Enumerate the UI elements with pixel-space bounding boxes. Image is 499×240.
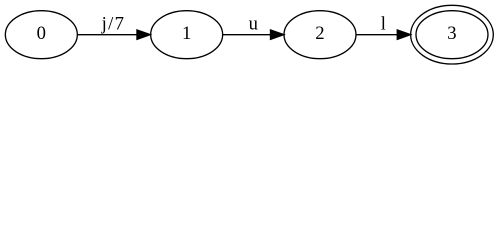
label j/7 bbox=[101, 14, 124, 35]
state 0 bbox=[5, 11, 77, 59]
arrowhead 0->1 bbox=[137, 30, 150, 39]
accepting state 3 (double ellipse) bbox=[411, 5, 494, 64]
wire edge 0->1 bbox=[78, 34, 137, 36]
label u bbox=[249, 14, 259, 35]
wire edge 1->2 bbox=[223, 34, 271, 36]
wire edge 2->3 bbox=[356, 34, 397, 36]
label l bbox=[381, 14, 386, 35]
state 1 bbox=[151, 11, 223, 59]
arrowhead 2->3 bbox=[397, 30, 410, 39]
arrowhead 1->2 bbox=[270, 30, 283, 39]
svg-text:l: l bbox=[381, 14, 386, 35]
svg-text:j/7: j/7 bbox=[101, 14, 124, 35]
svg-text:2: 2 bbox=[315, 23, 324, 44]
svg-text:u: u bbox=[249, 14, 259, 35]
svg-text:0: 0 bbox=[37, 23, 46, 44]
svg-text:1: 1 bbox=[182, 23, 191, 44]
svg-text:3: 3 bbox=[447, 23, 456, 44]
state 2 bbox=[284, 11, 356, 59]
